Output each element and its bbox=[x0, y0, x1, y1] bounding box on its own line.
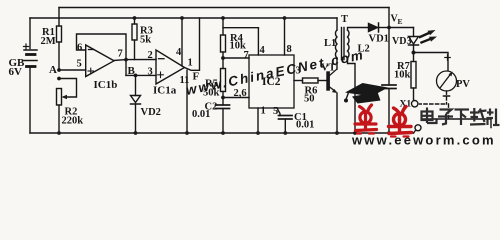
svg-text:2: 2 bbox=[148, 50, 153, 61]
wire top outer rail bbox=[59, 7, 389, 9]
watermark ChinaECNet diagonal bbox=[185, 47, 366, 98]
R1 value label bbox=[41, 27, 56, 47]
potentiometer R2 220k bbox=[57, 89, 62, 135]
svg-text:1: 1 bbox=[188, 58, 193, 69]
transformer T primary L1 bbox=[335, 18, 337, 69]
watermark red bug 1 bbox=[355, 105, 377, 134]
svg-text:0.01: 0.01 bbox=[296, 120, 314, 131]
diode VD1 bbox=[369, 23, 390, 32]
C2 value label bbox=[192, 102, 217, 121]
op-amp IC1a bbox=[156, 50, 185, 84]
svg-text:5k: 5k bbox=[140, 35, 151, 46]
wire IC1b feedback pin6 to output bbox=[77, 34, 127, 60]
watermark www.eeworm.com bbox=[351, 133, 496, 148]
dashed plug connection PV to X1 bbox=[420, 91, 449, 118]
svg-text:4: 4 bbox=[260, 45, 266, 56]
svg-text:IC1b: IC1b bbox=[94, 79, 118, 91]
svg-text:6: 6 bbox=[77, 43, 82, 54]
diode VD2 bbox=[131, 74, 141, 135]
wire IC1a pin11 to ground rail bbox=[185, 70, 189, 135]
PV label bbox=[456, 79, 470, 90]
svg-text:L1: L1 bbox=[324, 38, 336, 49]
wire top inner rail (+6V) bbox=[30, 17, 337, 19]
wire VE to VD3 bbox=[389, 27, 414, 29]
svg-text:A: A bbox=[49, 64, 57, 76]
resistor R1 bbox=[57, 8, 62, 71]
pin 4 8 labels bbox=[260, 44, 292, 56]
svg-text:1: 1 bbox=[261, 106, 266, 117]
R5 value label bbox=[203, 79, 220, 99]
wire PV feed bbox=[414, 53, 449, 71]
L1 label bbox=[324, 38, 336, 49]
IC2 label bbox=[262, 76, 281, 88]
svg-text:50: 50 bbox=[304, 94, 315, 105]
capacitor C3 filter branch bbox=[382, 28, 396, 135]
svg-text:4: 4 bbox=[176, 47, 182, 58]
IC2 pin7 label bbox=[244, 50, 249, 61]
svg-text:IC1a: IC1a bbox=[153, 85, 177, 97]
node VE bbox=[387, 8, 391, 30]
svg-text:2M: 2M bbox=[41, 36, 56, 47]
resistor R6 50 bbox=[303, 78, 328, 83]
R6 value label bbox=[304, 86, 317, 105]
LED VD3 bbox=[409, 28, 419, 55]
wire IC2 pins 2,6 bbox=[223, 97, 249, 99]
L2 label bbox=[358, 44, 370, 55]
svg-text:6V: 6V bbox=[9, 66, 23, 78]
svg-text:5: 5 bbox=[77, 59, 82, 70]
wire IC2 pin5 bbox=[277, 108, 280, 116]
node B label bbox=[128, 65, 136, 77]
svg-text:3: 3 bbox=[148, 67, 153, 78]
watermark Chinese text dian zi xia zai zhan bbox=[422, 108, 500, 126]
IC1b label bbox=[94, 79, 118, 91]
char zi bbox=[438, 110, 453, 125]
char zhan bbox=[487, 109, 500, 126]
wire node B to IC1a pin3 bbox=[126, 74, 156, 76]
svg-text:PV: PV bbox=[456, 79, 470, 90]
svg-text:VD1: VD1 bbox=[369, 34, 389, 45]
VD1 label bbox=[369, 34, 389, 45]
R4 value label bbox=[230, 33, 247, 52]
pin 5 label bbox=[273, 106, 278, 117]
svg-text:0.01: 0.01 bbox=[192, 109, 210, 120]
svg-text:10k: 10k bbox=[394, 70, 411, 81]
op-amp IC1b bbox=[86, 45, 114, 77]
VD3 label bbox=[392, 36, 411, 47]
pin 2,6 label bbox=[234, 88, 247, 99]
char zai bbox=[470, 108, 487, 125]
svg-text:T: T bbox=[341, 14, 348, 25]
capacitor C2 0.01 bbox=[216, 98, 230, 135]
VD2 label bbox=[141, 107, 161, 118]
node A label bbox=[49, 64, 57, 76]
wire bottom right return bbox=[422, 119, 491, 128]
svg-text:2,6: 2,6 bbox=[234, 88, 247, 99]
svg-text:www.eeworm.com: www.eeworm.com bbox=[351, 133, 496, 146]
svg-text:7: 7 bbox=[118, 49, 123, 60]
node B bbox=[124, 58, 128, 76]
svg-text:8: 8 bbox=[287, 44, 292, 55]
jack X1 bbox=[412, 101, 418, 107]
resistor R3 5k bbox=[132, 16, 137, 59]
svg-text:7: 7 bbox=[244, 50, 249, 61]
VT label bbox=[321, 63, 336, 74]
wire IC2 pins 4 8 to +rail bbox=[223, 16, 286, 55]
watermark graduation cap logo bbox=[344, 83, 388, 104]
X1 label bbox=[400, 100, 412, 110]
meter PV bbox=[437, 55, 457, 96]
transformer T core bbox=[342, 28, 345, 60]
node F label bbox=[193, 71, 200, 83]
VE label bbox=[391, 14, 403, 27]
R2 value label bbox=[62, 107, 84, 127]
IC1a label bbox=[153, 85, 177, 97]
wire IC1b output to IC1a pin2 bbox=[114, 60, 156, 61]
IC1b pin labels 6 5 7 bbox=[77, 43, 123, 70]
resistor R4 10k bbox=[221, 16, 250, 60]
transformer T secondary L2 bbox=[348, 28, 369, 135]
wire node A to IC1b pin5 bbox=[59, 69, 86, 71]
svg-text:220k: 220k bbox=[62, 116, 84, 127]
wire IC1a pin4 to +rail bbox=[180, 16, 184, 66]
resistor R5 50k bbox=[221, 58, 226, 99]
char xia bbox=[455, 110, 470, 126]
IC2 555 timer box bbox=[249, 55, 294, 108]
pin 1 label bbox=[261, 106, 266, 117]
watermark red bug 2 bbox=[389, 107, 412, 137]
R3 value label bbox=[140, 26, 153, 46]
VD3 emission arrows bbox=[420, 30, 437, 43]
node A bbox=[57, 68, 61, 80]
svg-text:VD2: VD2 bbox=[141, 107, 161, 118]
wire bottom rail (ground) bbox=[30, 132, 414, 134]
svg-text:VD3: VD3 bbox=[392, 36, 411, 47]
svg-text:5: 5 bbox=[273, 106, 278, 117]
potentiometer R2 wiper wire bbox=[59, 79, 77, 100]
resistor R7 10k bbox=[411, 53, 416, 101]
wire IC2 pin1 to ground bbox=[256, 108, 260, 135]
C1 value label bbox=[294, 112, 314, 131]
char dian bbox=[422, 108, 437, 124]
svg-text:E: E bbox=[398, 17, 403, 26]
T label bbox=[341, 14, 348, 25]
wire IC1a output node F to IC2 pin7 bbox=[185, 18, 200, 70]
capacitor C1 0.01 bbox=[279, 116, 293, 135]
IC1a pin labels 2 3 4 11 1 bbox=[148, 47, 193, 86]
battery GB 6V bbox=[24, 18, 38, 133]
transistor VT bbox=[327, 69, 339, 135]
pin 3 label bbox=[296, 66, 301, 77]
jack X2 bbox=[414, 125, 422, 133]
battery label GB 6V bbox=[9, 57, 26, 78]
R7 value label bbox=[394, 61, 411, 81]
wire IC2 pin3 to R6 bbox=[294, 80, 303, 82]
